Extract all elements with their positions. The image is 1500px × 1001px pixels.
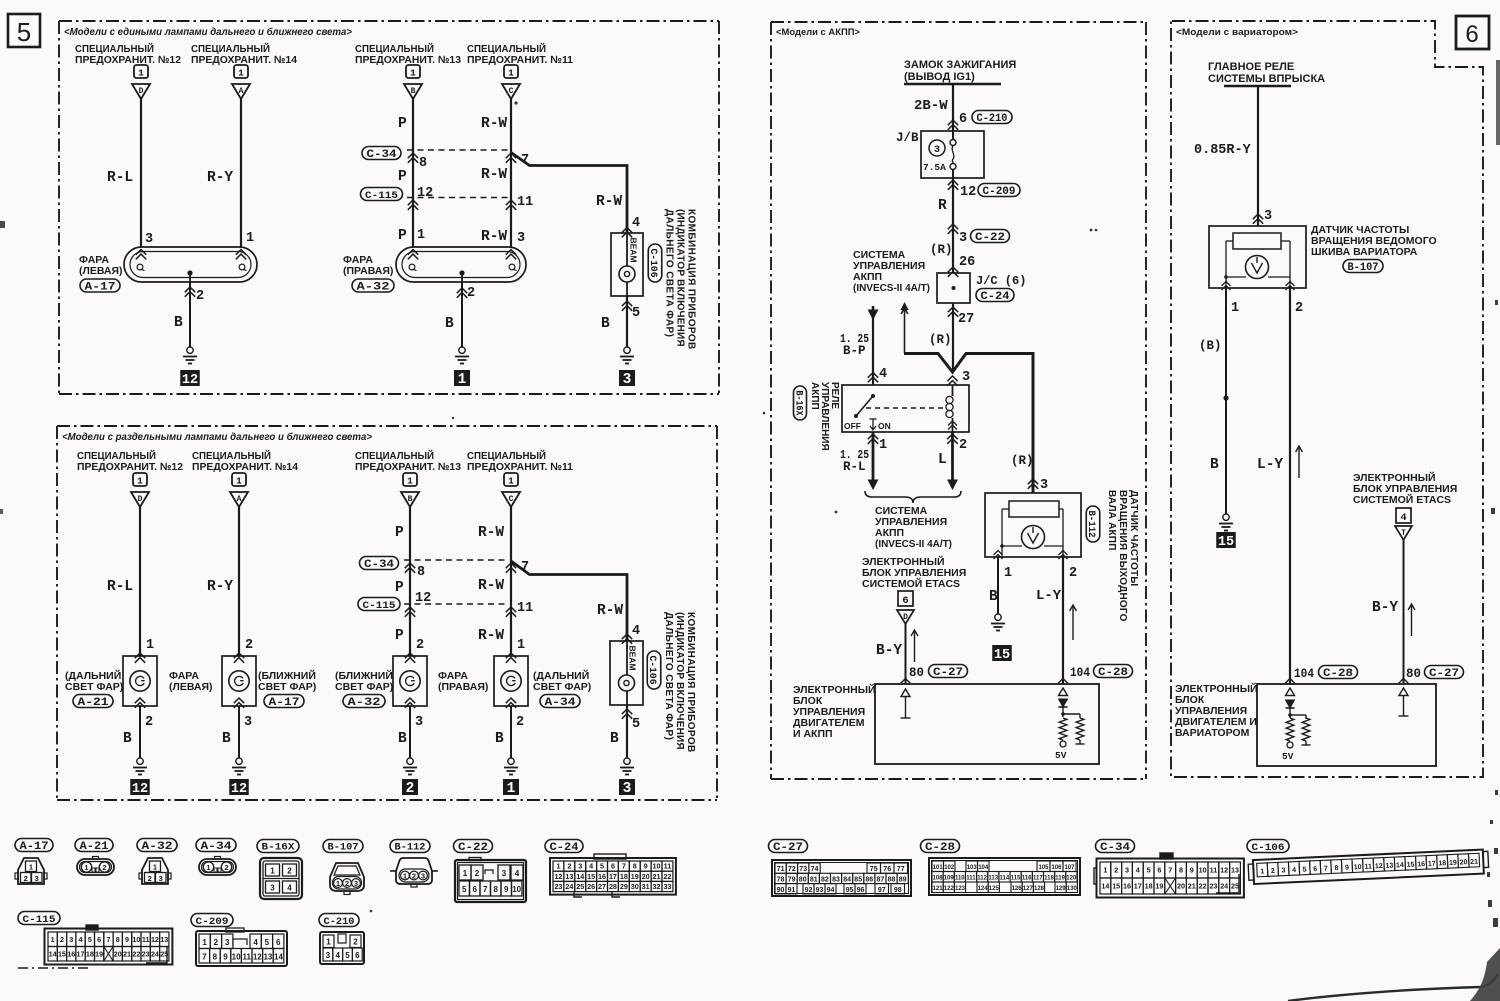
svg-text:21: 21 <box>123 949 131 958</box>
svg-text:26: 26 <box>959 255 975 270</box>
svg-text:25: 25 <box>1231 882 1239 891</box>
svg-text:14: 14 <box>1101 882 1109 891</box>
svg-text:И АКПП: И АКПП <box>793 728 833 740</box>
svg-text:R-W: R-W <box>478 578 504 594</box>
svg-text:ВАРИАТОРОМ: ВАРИАТОРОМ <box>1175 727 1250 739</box>
svg-text:(ЛЕВАЯ): (ЛЕВАЯ) <box>79 265 123 277</box>
svg-text:B: B <box>408 495 413 504</box>
svg-text:5: 5 <box>1303 866 1307 873</box>
svg-text:7: 7 <box>1324 865 1328 872</box>
svg-text:(ПРАВАЯ): (ПРАВАЯ) <box>438 681 488 693</box>
svg-text:128: 128 <box>1034 886 1045 892</box>
svg-text:88: 88 <box>888 877 896 884</box>
svg-text:12: 12 <box>253 953 262 962</box>
svg-text:1: 1 <box>326 938 331 947</box>
svg-text:25: 25 <box>576 882 584 891</box>
svg-text:C-27: C-27 <box>773 842 803 854</box>
svg-text:C-27: C-27 <box>1429 668 1459 680</box>
svg-text:7: 7 <box>622 862 626 871</box>
svg-text:6: 6 <box>472 885 477 894</box>
svg-text:R-W: R-W <box>481 229 507 245</box>
svg-text:1: 1 <box>879 438 887 453</box>
svg-text:СВЕТ ФАР): СВЕТ ФАР) <box>533 681 591 693</box>
svg-text:93: 93 <box>816 887 824 894</box>
svg-text:111: 111 <box>966 876 976 882</box>
svg-text:C-106: C-106 <box>646 656 658 685</box>
svg-text:А-21: А-21 <box>80 841 109 853</box>
svg-text:4: 4 <box>287 884 292 893</box>
svg-text:2: 2 <box>1295 301 1303 316</box>
svg-text:B-16X: B-16X <box>262 843 295 854</box>
svg-text:3: 3 <box>270 884 275 893</box>
svg-text:17: 17 <box>77 949 85 958</box>
svg-text:12: 12 <box>151 935 159 944</box>
svg-text:3: 3 <box>962 370 970 385</box>
svg-text:ПРЕДОХРАНИТ. №11: ПРЕДОХРАНИТ. №11 <box>467 54 573 66</box>
svg-text:17: 17 <box>1428 861 1436 868</box>
svg-text:30: 30 <box>631 882 639 891</box>
svg-text:11: 11 <box>142 935 150 944</box>
svg-text:79: 79 <box>788 877 796 884</box>
svg-text:B: B <box>610 731 619 747</box>
svg-text:1: 1 <box>407 476 413 487</box>
svg-text:2: 2 <box>196 289 204 304</box>
svg-text:18: 18 <box>620 872 628 881</box>
svg-text:73: 73 <box>799 866 807 873</box>
svg-text:D: D <box>139 87 144 96</box>
svg-text:125: 125 <box>989 886 1000 892</box>
svg-text:(R): (R) <box>1011 454 1034 468</box>
svg-text:ДАЛЬНЕГО СВЕТА ФАР): ДАЛЬНЕГО СВЕТА ФАР) <box>664 209 675 337</box>
svg-text:23: 23 <box>142 949 150 958</box>
svg-text:2B-W: 2B-W <box>914 98 948 114</box>
svg-text:2: 2 <box>60 935 64 944</box>
svg-text:6: 6 <box>959 112 967 127</box>
svg-text:81: 81 <box>810 877 818 884</box>
svg-text:107: 107 <box>1064 865 1075 871</box>
svg-text:28: 28 <box>609 882 617 891</box>
svg-text:(INVECS-II 4А/Т): (INVECS-II 4А/Т) <box>875 538 952 550</box>
svg-text:P: P <box>395 580 404 596</box>
svg-text:29: 29 <box>620 882 628 891</box>
svg-text:7: 7 <box>1168 866 1172 875</box>
svg-text:14: 14 <box>49 949 57 958</box>
svg-text:120: 120 <box>1066 876 1077 882</box>
svg-text:8: 8 <box>417 565 425 580</box>
svg-text:А-17: А-17 <box>85 281 116 293</box>
svg-text:СВЕТ ФАР): СВЕТ ФАР) <box>65 681 123 693</box>
svg-text:P: P <box>398 116 407 132</box>
svg-text:C-22: C-22 <box>458 842 488 854</box>
svg-text:4: 4 <box>632 624 640 639</box>
svg-text:5: 5 <box>600 862 604 871</box>
svg-text:2: 2 <box>406 781 415 797</box>
svg-text:124: 124 <box>978 886 989 892</box>
svg-text:3: 3 <box>244 715 252 730</box>
svg-text:А-34: А-34 <box>545 697 576 709</box>
svg-text:94: 94 <box>827 887 835 894</box>
svg-text:8: 8 <box>493 885 498 894</box>
svg-text:21: 21 <box>1188 882 1196 891</box>
svg-text:R-W: R-W <box>478 525 504 541</box>
svg-text:11: 11 <box>664 862 672 871</box>
svg-text:9: 9 <box>644 862 648 871</box>
svg-text:12: 12 <box>415 591 431 606</box>
svg-text:96: 96 <box>857 887 865 894</box>
svg-text:2: 2 <box>1114 866 1118 875</box>
svg-text:1: 1 <box>138 68 144 79</box>
svg-text:2: 2 <box>102 863 106 872</box>
svg-text:<Модели с едиными лампами даль: <Модели с едиными лампами дальнего и бли… <box>64 26 352 38</box>
svg-text:C-34: C-34 <box>1100 842 1130 854</box>
svg-text:2: 2 <box>287 867 292 876</box>
svg-text:108: 108 <box>932 876 943 882</box>
svg-text:1: 1 <box>463 869 468 878</box>
svg-text:113: 113 <box>988 876 998 882</box>
svg-text:C-210: C-210 <box>324 916 355 928</box>
svg-text:3: 3 <box>578 862 582 871</box>
svg-text:7: 7 <box>202 953 207 962</box>
svg-text:71: 71 <box>777 866 785 873</box>
svg-text:2: 2 <box>516 715 524 730</box>
svg-text:6: 6 <box>1157 866 1161 875</box>
svg-text:АКПП: АКПП <box>809 382 820 410</box>
svg-text:9: 9 <box>223 953 228 962</box>
svg-text:4: 4 <box>253 938 258 947</box>
svg-text:R: R <box>938 198 947 214</box>
svg-text:7: 7 <box>106 935 110 944</box>
svg-text:83: 83 <box>832 877 840 884</box>
svg-text:74: 74 <box>811 866 819 873</box>
svg-text:104: 104 <box>1294 667 1314 681</box>
svg-text:2: 2 <box>959 438 967 453</box>
svg-text:(B): (B) <box>1199 339 1222 353</box>
svg-text:R-W: R-W <box>596 194 622 210</box>
svg-text:5: 5 <box>632 717 640 732</box>
svg-text:15: 15 <box>587 872 595 881</box>
svg-text:15: 15 <box>1218 535 1234 550</box>
svg-text:12: 12 <box>554 872 562 881</box>
svg-text:6: 6 <box>611 862 615 871</box>
svg-text:17: 17 <box>609 872 617 881</box>
svg-text:C-115: C-115 <box>365 190 398 202</box>
svg-text:2: 2 <box>345 879 349 888</box>
svg-text:3: 3 <box>623 372 632 388</box>
svg-text:3: 3 <box>934 145 940 156</box>
svg-text:115: 115 <box>1011 876 1021 882</box>
svg-text:9: 9 <box>1190 866 1194 875</box>
svg-text:C-27: C-27 <box>933 667 963 679</box>
svg-text:27: 27 <box>958 312 974 327</box>
svg-text:BEAM: BEAM <box>629 238 639 263</box>
svg-text:82: 82 <box>821 877 829 884</box>
svg-text:12: 12 <box>231 782 247 797</box>
svg-text:P: P <box>398 169 407 185</box>
svg-text:12: 12 <box>1375 863 1383 870</box>
svg-text:1: 1 <box>51 935 55 944</box>
svg-text:1: 1 <box>206 863 210 872</box>
svg-text:5: 5 <box>17 17 31 47</box>
svg-text:12: 12 <box>417 186 433 201</box>
svg-text:1: 1 <box>336 879 340 888</box>
svg-text:1: 1 <box>403 871 407 880</box>
svg-text:J/C (6): J/C (6) <box>976 274 1026 288</box>
svg-text:ДАТЧИК ЧАСТОТЫ: ДАТЧИК ЧАСТОТЫ <box>1128 490 1139 586</box>
svg-text:B-Y: B-Y <box>876 643 902 659</box>
svg-text:24: 24 <box>565 882 573 891</box>
svg-text:C-115: C-115 <box>23 914 56 926</box>
svg-text:13: 13 <box>565 872 573 881</box>
svg-text:2: 2 <box>214 938 219 947</box>
svg-text:20: 20 <box>1459 859 1467 866</box>
svg-text:21: 21 <box>1470 859 1478 866</box>
svg-text:3: 3 <box>623 781 632 797</box>
svg-text:14: 14 <box>1396 862 1404 869</box>
svg-text:C-209: C-209 <box>196 916 229 928</box>
svg-text:1: 1 <box>1103 866 1107 875</box>
svg-text:OFF: OFF <box>844 421 861 431</box>
svg-text:3: 3 <box>225 938 230 947</box>
svg-text:2: 2 <box>353 938 358 947</box>
svg-text:1: 1 <box>507 781 516 797</box>
svg-text:5V: 5V <box>1055 750 1067 761</box>
svg-text:117: 117 <box>1033 876 1043 882</box>
svg-text:D: D <box>138 495 143 504</box>
svg-text:72: 72 <box>788 866 796 873</box>
svg-text:90: 90 <box>777 887 785 894</box>
svg-text:ПРЕДОХРАНИТ. №13: ПРЕДОХРАНИТ. №13 <box>355 461 461 473</box>
svg-text:1: 1 <box>417 228 425 243</box>
svg-text:А-17: А-17 <box>20 841 49 853</box>
svg-text:24: 24 <box>151 949 159 958</box>
svg-text:6: 6 <box>1465 21 1478 48</box>
svg-text:11: 11 <box>1364 863 1372 870</box>
svg-text:119: 119 <box>1055 876 1065 882</box>
svg-text:104: 104 <box>978 865 989 871</box>
svg-text:ПРЕДОХРАНИТ. №14: ПРЕДОХРАНИТ. №14 <box>192 461 298 473</box>
svg-text:22: 22 <box>132 949 140 958</box>
svg-text:104: 104 <box>1070 666 1090 680</box>
svg-text:C-106: C-106 <box>1252 842 1285 854</box>
svg-text:<Модели с раздельными лампами: <Модели с раздельными лампами дальнего и… <box>62 431 372 443</box>
svg-text:9: 9 <box>504 885 509 894</box>
svg-text:85: 85 <box>854 877 862 884</box>
svg-text:P: P <box>395 525 404 541</box>
svg-text:СВЕТ ФАР): СВЕТ ФАР) <box>335 681 393 693</box>
svg-text:B: B <box>222 731 231 747</box>
svg-text:(ИНДИКАТОР ВКЛЮЧЕНИЯ: (ИНДИКАТОР ВКЛЮЧЕНИЯ <box>675 209 686 347</box>
svg-text:22: 22 <box>1199 882 1207 891</box>
svg-text:10: 10 <box>1199 866 1207 875</box>
svg-text:B: B <box>123 731 132 747</box>
svg-text:110: 110 <box>955 876 965 882</box>
svg-text:10: 10 <box>232 953 241 962</box>
svg-text:84: 84 <box>843 877 851 884</box>
svg-text:R-L: R-L <box>843 460 866 474</box>
svg-text:ШКИВА ВАРИАТОРА: ШКИВА ВАРИАТОРА <box>1311 246 1418 258</box>
svg-text:19: 19 <box>1449 860 1457 867</box>
svg-text:R-W: R-W <box>481 116 507 132</box>
svg-text:2: 2 <box>567 862 571 871</box>
svg-text:C-34: C-34 <box>367 149 397 161</box>
svg-text:123: 123 <box>955 886 966 892</box>
svg-text:J/B: J/B <box>896 131 919 145</box>
svg-text:7.5A: 7.5A <box>923 162 946 173</box>
svg-text:2: 2 <box>416 638 424 653</box>
svg-text:19: 19 <box>95 949 103 958</box>
svg-text:3: 3 <box>1281 867 1285 874</box>
svg-text:4: 4 <box>1136 866 1140 875</box>
svg-text:2: 2 <box>148 874 152 883</box>
svg-text:6: 6 <box>902 595 908 607</box>
svg-text:1: 1 <box>146 638 154 653</box>
svg-text:23: 23 <box>554 882 562 891</box>
svg-text:А-32: А-32 <box>348 697 381 709</box>
svg-text:2: 2 <box>245 638 253 653</box>
svg-text:В-112: В-112 <box>1085 511 1097 538</box>
svg-text:23: 23 <box>1209 882 1217 891</box>
svg-text:1: 1 <box>153 863 157 872</box>
svg-text:80: 80 <box>799 877 807 884</box>
svg-text:В-107: В-107 <box>1348 262 1379 274</box>
svg-text:(INVECS-II 4А/Т): (INVECS-II 4А/Т) <box>853 282 930 294</box>
svg-text:6: 6 <box>97 935 101 944</box>
svg-text:8: 8 <box>1179 866 1183 875</box>
svg-text:3: 3 <box>145 232 153 247</box>
svg-text:B-P: B-P <box>843 344 866 358</box>
svg-text:32: 32 <box>653 882 661 891</box>
svg-text:B: B <box>398 731 407 747</box>
svg-text:105: 105 <box>1038 865 1049 871</box>
svg-text:0.85R-Y: 0.85R-Y <box>1194 143 1252 158</box>
svg-text:12: 12 <box>132 782 148 797</box>
svg-text:8: 8 <box>213 953 218 962</box>
svg-text:C-210: C-210 <box>977 113 1008 125</box>
svg-text:2: 2 <box>1271 868 1275 875</box>
svg-text:5: 5 <box>265 938 270 947</box>
svg-text:101: 101 <box>933 865 944 871</box>
svg-text:BEAM: BEAM <box>628 646 638 671</box>
svg-text:10: 10 <box>512 885 521 894</box>
svg-text:31: 31 <box>642 882 650 891</box>
svg-text:ВАЛА АКПП: ВАЛА АКПП <box>1106 490 1117 551</box>
svg-text:3: 3 <box>502 869 507 878</box>
svg-text:А-34: А-34 <box>201 841 232 853</box>
svg-text:5: 5 <box>632 306 640 321</box>
svg-text:C: C <box>509 87 514 96</box>
svg-text:B: B <box>411 87 416 96</box>
svg-text:R-L: R-L <box>107 579 133 595</box>
svg-text:97: 97 <box>878 887 886 894</box>
svg-text:87: 87 <box>877 877 885 884</box>
svg-text:11: 11 <box>517 195 533 210</box>
svg-text:ПРЕДОХРАНИТ. №11: ПРЕДОХРАНИТ. №11 <box>467 461 573 473</box>
svg-text:13: 13 <box>263 953 272 962</box>
svg-text:4: 4 <box>1400 512 1406 524</box>
svg-text:109: 109 <box>944 876 955 882</box>
svg-text:20: 20 <box>642 872 650 881</box>
svg-text:2: 2 <box>224 863 228 872</box>
svg-text:6: 6 <box>276 938 281 947</box>
svg-text:121: 121 <box>933 886 944 892</box>
svg-text:C: C <box>509 495 514 504</box>
svg-text:1: 1 <box>1231 301 1239 316</box>
svg-text:P: P <box>398 228 407 244</box>
svg-text:C-115: C-115 <box>363 600 396 612</box>
svg-text:17: 17 <box>1134 882 1142 891</box>
svg-text:92: 92 <box>805 887 813 894</box>
svg-text:95: 95 <box>846 887 854 894</box>
svg-text:103: 103 <box>967 865 978 871</box>
svg-text:B: B <box>989 589 998 605</box>
svg-text:А-17: А-17 <box>269 697 300 709</box>
svg-text:14: 14 <box>576 872 584 881</box>
svg-text:8: 8 <box>116 935 120 944</box>
svg-text:А-32: А-32 <box>357 281 390 293</box>
svg-text:106: 106 <box>1051 865 1062 871</box>
svg-text:B: B <box>1210 457 1219 473</box>
svg-text:89: 89 <box>899 877 907 884</box>
svg-text:(R): (R) <box>929 333 952 347</box>
svg-text:11: 11 <box>1210 866 1218 875</box>
svg-text:A: A <box>237 495 242 504</box>
svg-text:20: 20 <box>114 949 122 958</box>
svg-text:(R): (R) <box>930 243 953 257</box>
svg-text:12: 12 <box>960 185 976 200</box>
svg-text:4: 4 <box>1292 867 1296 874</box>
svg-text:13: 13 <box>160 935 168 944</box>
svg-text:5V: 5V <box>1282 751 1294 762</box>
svg-text:C-24: C-24 <box>981 291 1010 303</box>
svg-text:КОМБИНАЦИЯ ПРИБОРОВ: КОМБИНАЦИЯ ПРИБОРОВ <box>686 209 697 350</box>
svg-text:7: 7 <box>483 885 488 894</box>
svg-text:15: 15 <box>1112 882 1120 891</box>
svg-text:ON: ON <box>878 421 891 431</box>
svg-text:3: 3 <box>159 874 163 883</box>
svg-text:B-112: B-112 <box>395 843 426 854</box>
svg-text:T: T <box>1401 529 1406 538</box>
svg-text:1: 1 <box>556 862 560 871</box>
svg-text:R-Y: R-Y <box>207 579 233 595</box>
svg-text:4: 4 <box>335 951 340 960</box>
svg-text:C-106: C-106 <box>647 249 659 278</box>
svg-text:<Модели с вариатором>: <Модели с вариатором> <box>1176 27 1298 38</box>
svg-text:ЗАМОК ЗАЖИГАНИЯ: ЗАМОК ЗАЖИГАНИЯ <box>904 59 1016 71</box>
svg-text:130: 130 <box>1067 886 1078 892</box>
svg-text:16: 16 <box>1417 861 1425 868</box>
svg-text:3: 3 <box>69 935 73 944</box>
svg-text:B: B <box>495 731 504 747</box>
svg-text:L: L <box>938 452 947 468</box>
svg-text:112: 112 <box>977 876 987 882</box>
svg-text:129: 129 <box>1056 886 1067 892</box>
svg-text:10: 10 <box>1354 864 1362 871</box>
svg-text:18: 18 <box>1145 882 1153 891</box>
svg-text:(ВЫВОД IG1): (ВЫВОД IG1) <box>904 71 975 83</box>
svg-text:116: 116 <box>1022 876 1032 882</box>
svg-text:3: 3 <box>959 231 967 246</box>
svg-text:ПРЕДОХРАНИТ. №12: ПРЕДОХРАНИТ. №12 <box>77 461 183 473</box>
svg-text:19: 19 <box>631 872 639 881</box>
svg-text:5: 5 <box>345 951 350 960</box>
svg-text:80: 80 <box>909 665 924 680</box>
svg-text:(ИНДИКАТОР ВКЛЮЧЕНИЯ: (ИНДИКАТОР ВКЛЮЧЕНИЯ <box>674 612 685 750</box>
svg-text:ВРАЩЕНИЯ ВЫХОДНОГО: ВРАЩЕНИЯ ВЫХОДНОГО <box>1117 490 1128 622</box>
svg-text:2: 2 <box>467 286 475 301</box>
svg-text:3: 3 <box>517 231 525 246</box>
svg-text:1: 1 <box>84 863 88 872</box>
svg-text:3: 3 <box>326 951 331 960</box>
